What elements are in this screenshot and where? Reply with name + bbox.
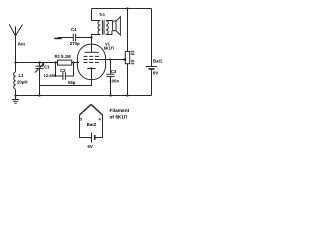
svg-text:Bat1: Bat1	[153, 59, 163, 64]
svg-text:68p: 68p	[68, 80, 76, 85]
svg-text:C3: C3	[111, 69, 117, 74]
svg-text:Ant: Ant	[18, 41, 26, 46]
svg-text:6V: 6V	[88, 144, 93, 149]
svg-text:Tr1: Tr1	[99, 12, 106, 17]
svg-text:20μH: 20μH	[17, 80, 28, 85]
svg-text:100n: 100n	[109, 78, 119, 83]
svg-text:Bat2: Bat2	[87, 122, 97, 127]
svg-text:3: 3	[80, 118, 82, 122]
svg-text:Filament: Filament	[110, 108, 130, 114]
svg-text:R1 5.1M: R1 5.1M	[55, 54, 72, 59]
svg-text:C1: C1	[44, 65, 50, 70]
svg-text:4: 4	[99, 118, 102, 122]
svg-text:9V: 9V	[153, 71, 158, 76]
svg-text:of 6К1П: of 6К1П	[110, 114, 128, 120]
svg-text:L1: L1	[19, 73, 25, 78]
svg-text:C4: C4	[71, 27, 77, 32]
svg-text:6К1П: 6К1П	[104, 46, 114, 51]
svg-text:12-495: 12-495	[44, 73, 57, 78]
svg-text:C2: C2	[60, 68, 66, 73]
svg-text:270p: 270p	[70, 41, 80, 46]
